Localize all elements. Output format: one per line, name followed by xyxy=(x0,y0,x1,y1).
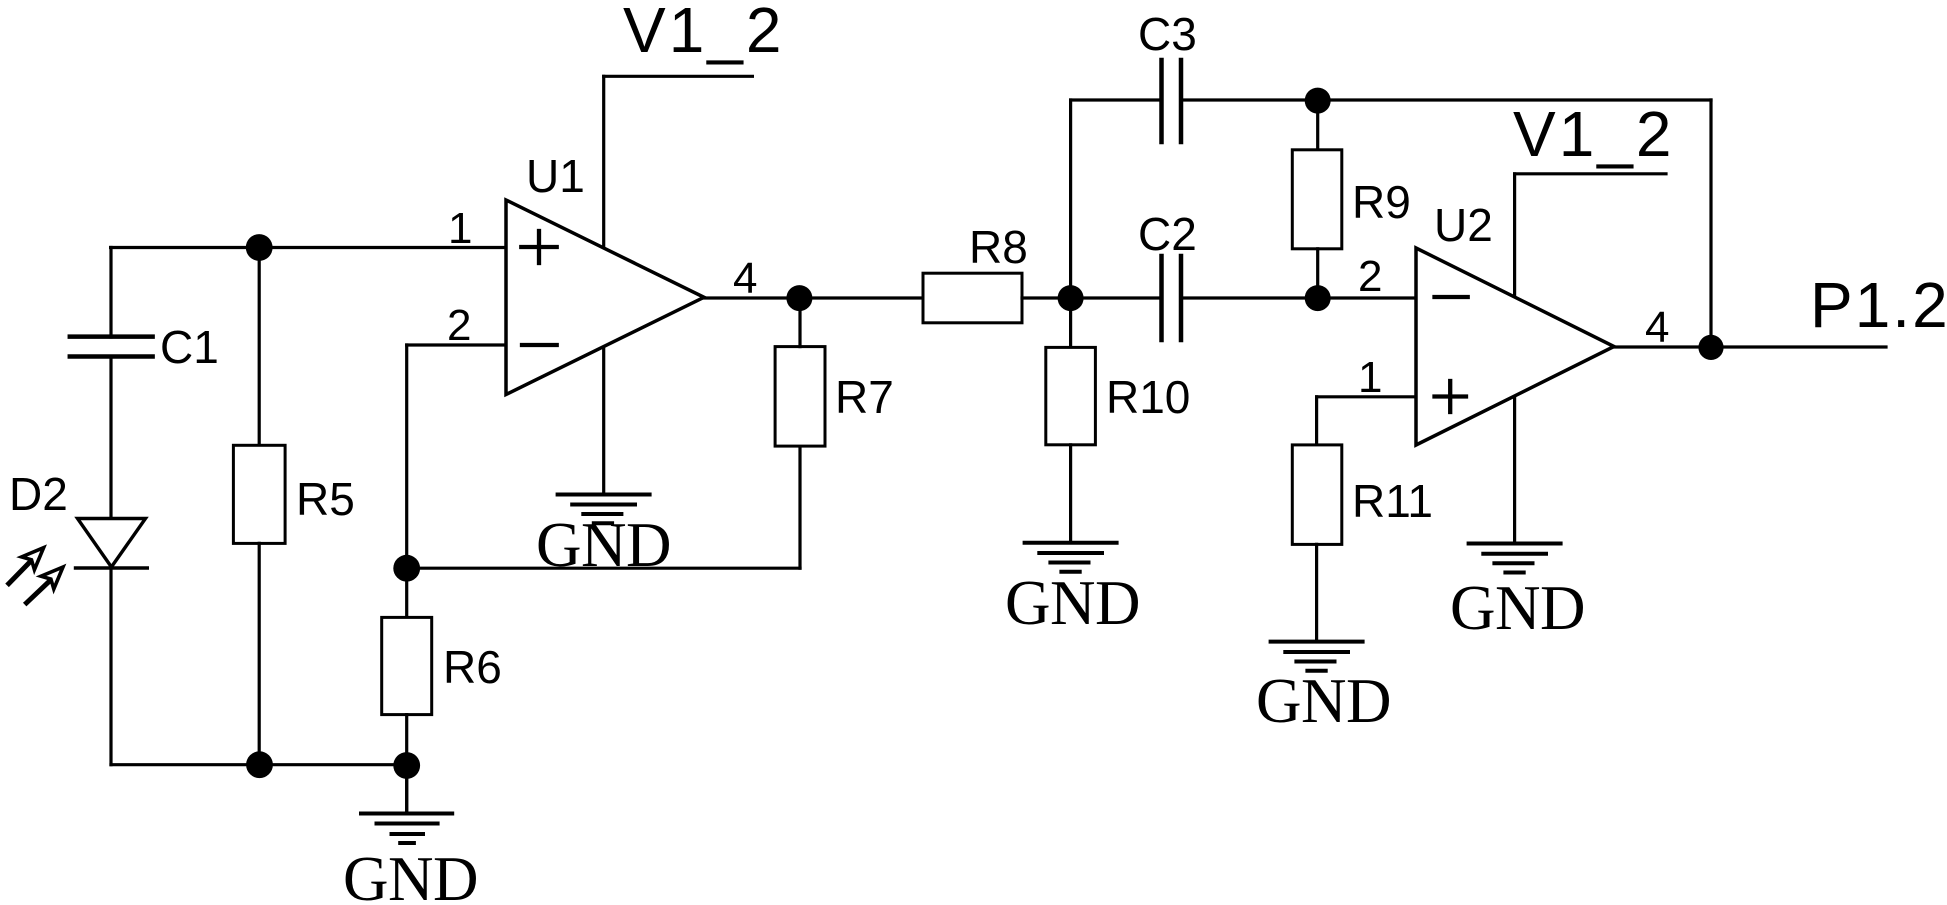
wire R8 to C2 node xyxy=(1022,296,1162,299)
light arrow 1 xyxy=(9,548,44,584)
wire U1 pin2 net vertical xyxy=(405,345,408,568)
svg-text:4: 4 xyxy=(1645,303,1669,352)
svg-text:C2: C2 xyxy=(1138,208,1197,260)
capacitor C3 xyxy=(1162,60,1182,142)
wire D2 to bottom rail xyxy=(109,568,112,765)
node junction U2 output xyxy=(1698,335,1723,360)
svg-text:C3: C3 xyxy=(1138,8,1197,60)
svg-text:D2: D2 xyxy=(9,468,68,520)
wire R5 top lead xyxy=(258,248,261,446)
capacitor C1 xyxy=(70,337,153,357)
resistor R10 xyxy=(1046,347,1096,444)
node junction R6 top of gnd xyxy=(393,752,420,779)
wire C3 branch vertical xyxy=(1069,100,1072,298)
svg-text:GND: GND xyxy=(343,844,478,905)
resistor R6 xyxy=(382,617,432,714)
wire R11 top lead xyxy=(1315,397,1318,445)
svg-text:GND: GND xyxy=(536,510,671,580)
wire R7 bottom lead xyxy=(798,446,801,568)
svg-text:1: 1 xyxy=(1358,353,1382,402)
svg-text:2: 2 xyxy=(1358,252,1382,301)
wire U1 pin2 horizontal xyxy=(407,343,506,346)
svg-text:GND: GND xyxy=(1450,573,1585,643)
wire U2 gnd stub xyxy=(1513,397,1516,544)
svg-text:2: 2 xyxy=(447,301,471,350)
wire U1 gnd stub xyxy=(602,346,605,495)
wire U2 V1_2 stub xyxy=(1515,174,1666,297)
node junction R8-C2-R10 xyxy=(1058,285,1084,311)
svg-text:R9: R9 xyxy=(1352,176,1411,228)
wire feedback horizontal xyxy=(407,567,800,570)
photodiode D2 xyxy=(76,519,148,569)
wire U1 V1_2 stub xyxy=(604,76,753,248)
ground under U1 xyxy=(558,495,650,524)
svg-text:R5: R5 xyxy=(296,473,355,525)
wire R9 bottom lead xyxy=(1316,249,1319,298)
node junction C2-R9-U2 xyxy=(1305,285,1331,311)
svg-text:R7: R7 xyxy=(835,371,894,423)
wire R6 bottom lead xyxy=(405,715,408,813)
wire bottom rail xyxy=(111,763,407,766)
resistor R11 xyxy=(1292,445,1342,545)
node junction C3-R9 xyxy=(1305,88,1331,114)
svg-text:4: 4 xyxy=(733,254,757,303)
wire C3 left xyxy=(1071,98,1162,101)
node junction U1 output xyxy=(786,285,812,311)
svg-text:GND: GND xyxy=(1256,666,1391,736)
wire U2 output to P1.2 xyxy=(1614,345,1886,348)
wire top-left horizontal to U1 pin1 xyxy=(111,246,506,249)
wire R7 top lead xyxy=(798,298,801,347)
wire R5 bottom lead xyxy=(258,543,261,764)
op-amp U1 xyxy=(506,200,704,395)
wire R11 bottom lead xyxy=(1315,544,1318,641)
wire R9 top lead xyxy=(1316,100,1319,150)
node junction R5 bottom xyxy=(246,751,273,778)
svg-text:V1_2: V1_2 xyxy=(1513,98,1674,170)
svg-text:V1_2: V1_2 xyxy=(623,0,784,66)
node junction top-left xyxy=(246,234,273,261)
wire left vertical above C1 xyxy=(109,248,112,338)
wire U2 pin1 horizontal xyxy=(1317,395,1416,398)
wire R10 top lead xyxy=(1069,298,1072,347)
svg-text:P1.2: P1.2 xyxy=(1810,269,1947,341)
wire R10 bottom lead xyxy=(1069,445,1072,543)
op-amp U2 xyxy=(1416,248,1614,445)
svg-text:U2: U2 xyxy=(1434,199,1493,251)
resistor R7 xyxy=(775,347,825,447)
light arrow 2 xyxy=(27,567,64,603)
wire C3 right to corner xyxy=(1181,98,1711,101)
ground under R6 xyxy=(361,814,452,844)
ground under R11 xyxy=(1271,642,1363,671)
resistor R5 xyxy=(233,445,285,543)
svg-text:R11: R11 xyxy=(1352,475,1433,527)
svg-text:R10: R10 xyxy=(1106,371,1190,423)
svg-text:1: 1 xyxy=(448,204,472,253)
node junction feedback xyxy=(393,555,420,582)
wire C1 to D2 xyxy=(109,357,112,519)
resistor R9 xyxy=(1292,150,1342,249)
svg-text:C1: C1 xyxy=(160,321,219,373)
svg-text:R8: R8 xyxy=(969,221,1028,273)
capacitor C2 xyxy=(1162,256,1182,340)
wire U1 output xyxy=(704,296,923,299)
ground under R10 xyxy=(1025,543,1117,572)
wire right vertical down to output xyxy=(1709,100,1712,347)
wire R6 gnd stub xyxy=(405,766,408,814)
svg-text:U1: U1 xyxy=(526,150,585,202)
resistor R8 xyxy=(923,273,1022,323)
wire R6 top lead xyxy=(405,568,408,617)
svg-text:GND: GND xyxy=(1005,568,1140,638)
svg-text:R6: R6 xyxy=(443,641,502,693)
ground under U2 xyxy=(1469,544,1561,573)
wire C2 to U2 pin2 xyxy=(1181,296,1416,299)
